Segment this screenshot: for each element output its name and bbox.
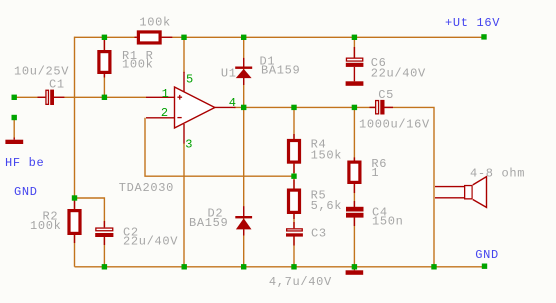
wire input signal (14, 96, 45, 98)
ground symbol below C6 (346, 81, 364, 86)
capacitor C1 10u/25V (38, 90, 65, 105)
junction speaker/ground rail (431, 264, 436, 269)
wire output to C5 (234, 106, 376, 108)
svg-text:1: 1 (371, 166, 379, 180)
wire R1 branch (103, 37, 105, 97)
junction bias/R1 top (102, 35, 107, 40)
wire C4 to ground rail (353, 217, 355, 266)
wire feedback pin2 to R4/R5 node (145, 118, 294, 176)
wire diode branch D1/D2 (243, 37, 245, 266)
svg-text:2: 2 (161, 106, 169, 120)
terminal input signal (12, 95, 17, 100)
junction output/D1 (241, 105, 246, 110)
svg-text:100k: 100k (139, 15, 171, 29)
ground symbol on bottom rail (346, 267, 364, 275)
wire C5 to speaker and ground rail (384, 107, 434, 266)
resistor R2 100k (69, 201, 80, 244)
wire input ground stub (13, 118, 15, 139)
speaker LS1 4-8 ohm (435, 177, 487, 208)
svg-text:HF be: HF be (5, 156, 44, 170)
junction C6 supply (352, 35, 357, 40)
node GND stub (482, 264, 487, 269)
svg-text:5: 5 (186, 73, 194, 87)
op-amp U1 TDA2030 (146, 72, 236, 144)
capacitor C2 22u/40V (95, 221, 113, 245)
svg-text:4,7u/40V: 4,7u/40V (269, 275, 332, 289)
wire pin5 to supply rail (183, 37, 185, 73)
svg-text:4-8 ohm: 4-8 ohm (470, 166, 525, 180)
resistor R6 1 (349, 157, 360, 193)
resistor R4 150k (289, 134, 300, 173)
wire bias node to C2 (75, 198, 105, 227)
svg-text:TDA2030: TDA2030 (119, 181, 174, 195)
svg-text:22u/40V: 22u/40V (371, 66, 426, 80)
wire C3 to ground rail (293, 236, 295, 266)
svg-text:C5: C5 (378, 88, 394, 102)
junction C4/ground rail (352, 264, 357, 269)
svg-text:4: 4 (229, 96, 237, 110)
svg-text:150n: 150n (372, 214, 404, 228)
resistor R5 5,6k (289, 180, 300, 220)
junction D1 supply (241, 35, 246, 40)
junction C3/ground rail (291, 264, 296, 269)
junction C2/ground rail (102, 264, 107, 269)
svg-text:+Ut 16V: +Ut 16V (445, 16, 500, 30)
junction pin5 supply (181, 35, 186, 40)
terminal input ground (12, 115, 17, 120)
junction R1/input (102, 95, 107, 100)
diode D2 BA159 (235, 206, 252, 235)
junction pin3/ground rail (182, 264, 187, 269)
wire R6/C4 branch (353, 107, 355, 207)
svg-text:BA159: BA159 (261, 64, 300, 78)
svg-text:C1: C1 (49, 78, 65, 92)
wire pin3 to ground rail (183, 143, 185, 267)
wire bottom ground rail (75, 266, 485, 268)
wire left bias branch (74, 37, 76, 267)
node +Ut stub (481, 34, 486, 39)
wire C1 to op-amp pin1 (54, 96, 146, 98)
svg-text:GND: GND (14, 185, 38, 199)
junction output/R4 (291, 105, 296, 110)
junction bias/C2 (72, 195, 77, 200)
svg-text:22u/40V: 22u/40V (123, 235, 178, 249)
svg-text:5,6k: 5,6k (311, 199, 343, 213)
resistor R3 100k (bias feed, top) (135, 32, 173, 43)
svg-text:C3: C3 (311, 226, 327, 240)
junction feedback R4/R5 (291, 174, 296, 179)
wire C6 branch (353, 37, 355, 57)
resistor R1 100k (99, 40, 110, 78)
svg-text:100k: 100k (30, 219, 62, 233)
ground symbol at input (5, 138, 23, 145)
svg-text:1: 1 (162, 87, 170, 101)
junction output/R6 (352, 105, 357, 110)
wire R4/R5/C3 branch (293, 107, 295, 228)
capacitor C4 150n (346, 201, 364, 226)
diode D1 BA159 (235, 58, 252, 85)
capacitor C3 4,7u/40V (286, 222, 303, 246)
svg-text:100k: 100k (122, 58, 154, 72)
svg-text:U1: U1 (221, 67, 237, 81)
capacitor C6 22u/40V (346, 47, 364, 81)
svg-text:10u/25V: 10u/25V (14, 65, 69, 79)
svg-text:1000u/16V: 1000u/16V (359, 117, 430, 131)
svg-text:GND: GND (475, 248, 499, 262)
svg-text:BA159: BA159 (189, 216, 228, 230)
junction D2/ground rail (241, 264, 246, 269)
wire top supply rail (75, 36, 485, 38)
svg-text:150k: 150k (311, 148, 343, 162)
svg-text:3: 3 (185, 138, 193, 152)
capacitor C5 1000u/16V (370, 100, 394, 115)
wire C2 to ground rail (103, 238, 105, 267)
